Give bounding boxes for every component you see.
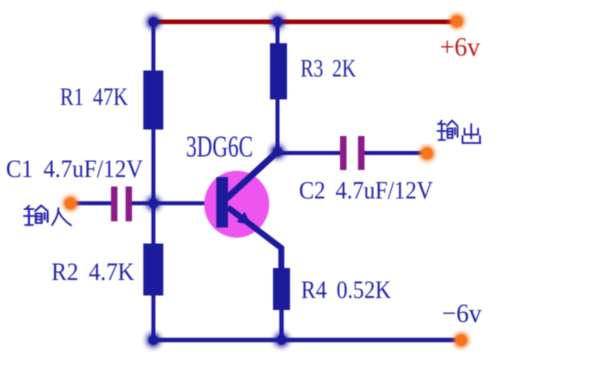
resistor R4 — [273, 268, 290, 310]
resistor R1 — [143, 71, 163, 130]
terminal -6V (orange) — [454, 333, 469, 348]
terminal output (orange) — [420, 146, 435, 161]
wire -6V rail (bottom) — [153, 338, 461, 342]
svg-text:3DG6C: 3DG6C — [186, 130, 253, 164]
resistor R3 — [270, 43, 287, 99]
terminal input (orange) — [63, 196, 78, 211]
capacitor C1 — [111, 187, 132, 222]
wire R4 to -6V rail — [279, 308, 283, 340]
node junction base — [146, 196, 160, 210]
svg-text:−6v: −6v — [442, 298, 482, 328]
capacitor C2 — [340, 136, 365, 170]
node junction top-left — [146, 15, 160, 29]
transistor Q1 collector lead — [227, 152, 278, 199]
wire input to C1 — [71, 201, 113, 205]
transistor Q1 emitter arrowhead — [237, 212, 251, 225]
wire collector node to C2 — [278, 151, 342, 155]
wire R3 branch vertical — [276, 22, 280, 152]
label 输入 (input, chinese) — [24, 206, 71, 226]
node junction top-middle — [271, 15, 285, 29]
terminal +6V (orange) — [449, 14, 464, 29]
svg-text:C1 4.7uF/12V: C1 4.7uF/12V — [6, 154, 144, 183]
node junction bottom-middle — [275, 333, 289, 347]
transistor Q1 emitter lead — [228, 208, 281, 271]
svg-text:C2 4.7uF/12V: C2 4.7uF/12V — [299, 176, 434, 205]
wire C1 to base — [131, 201, 217, 205]
svg-text:R1 47K: R1 47K — [60, 82, 128, 111]
svg-text:+6v: +6v — [440, 32, 481, 62]
wire +6V rail (top, dark red) — [150, 19, 457, 24]
svg-text:R3 2K: R3 2K — [301, 53, 357, 82]
label 输出 (output, chinese) — [438, 121, 481, 144]
resistor R2 — [143, 244, 163, 296]
node junction collector — [271, 145, 285, 159]
wire left branch vertical (R1/R2 string) — [151, 22, 155, 340]
transistor Q1 base bar — [216, 177, 228, 228]
svg-text:R2 4.7K: R2 4.7K — [51, 257, 135, 286]
svg-text:R4 0.52K: R4 0.52K — [301, 275, 391, 304]
wire C2 to output — [364, 151, 428, 155]
node junction bottom-left — [146, 333, 160, 347]
transistor Q1 3DG6C body circle — [204, 171, 269, 238]
